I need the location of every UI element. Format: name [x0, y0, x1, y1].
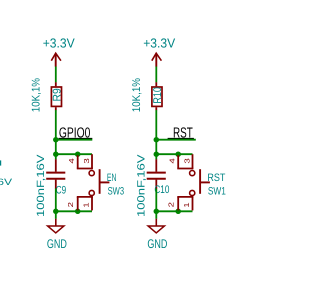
junction left column SW3 top wire: [53, 151, 59, 157]
svg-text:EN: EN: [107, 172, 117, 184]
svg-text:SW3: SW3: [108, 185, 125, 197]
svg-text:+3.3V: +3.3V: [143, 35, 175, 50]
switch SW3 body: [77, 154, 110, 210]
wire RST label: [156, 139, 196, 141]
label GPIO0: [59, 125, 93, 141]
svg-text:SW1: SW1: [208, 186, 226, 198]
switch SW1 body: [177, 154, 210, 210]
label RST: [168, 125, 194, 141]
svg-text:RST: RST: [207, 172, 225, 184]
ground right: [148, 219, 164, 233]
junction SW1 pin 4: [175, 151, 181, 157]
wire SW1 bottom: [156, 210, 192, 212]
svg-text:10K,1%: 10K,1%: [131, 78, 143, 112]
svg-text:GND: GND: [47, 237, 67, 251]
svg-text:100nF,16V: 100nF,16V: [136, 155, 148, 218]
junction SW1 pin 2: [175, 209, 181, 215]
power +3.3V left arrow: [51, 53, 61, 66]
wire +3.3V to R9: [55, 67, 57, 83]
junction left column bottom: [53, 209, 59, 215]
ground left: [48, 219, 64, 233]
wire C9 to GND: [55, 189, 57, 219]
wire R9 down main left column: [55, 110, 57, 159]
capacitor C9: [46, 159, 65, 188]
svg-text:GND: GND: [147, 237, 167, 251]
junction right column bottom: [154, 209, 160, 215]
capacitor C10: [147, 159, 166, 188]
wire GPIO0 label: [56, 139, 93, 141]
svg-text:C9: C9: [56, 184, 66, 196]
clipped text fragment left edge: [0, 160, 1, 165]
svg-text:100nF,16V: 100nF,16V: [0, 177, 13, 187]
junction SW3 pin 4: [75, 151, 81, 157]
resistor R10: [152, 82, 162, 110]
svg-text:R9: R9: [52, 88, 64, 101]
resistor R9: [51, 82, 61, 110]
svg-text:2: 2: [66, 202, 75, 207]
wire to SW1 top: [156, 153, 192, 155]
svg-text:2: 2: [167, 202, 176, 207]
junction right column SW1 top wire: [154, 151, 160, 157]
junction RST: [154, 137, 160, 143]
svg-text:10K,1%: 10K,1%: [31, 78, 43, 112]
wire C10 to GND: [155, 189, 157, 219]
svg-text:+3.3V: +3.3V: [43, 35, 75, 50]
junction GPIO0: [53, 137, 59, 143]
wire to SW3 top: [56, 153, 92, 155]
svg-text:3: 3: [183, 158, 192, 163]
svg-text:4: 4: [168, 158, 177, 163]
power +3.3V right arrow: [152, 53, 162, 66]
svg-text:R10: R10: [152, 87, 164, 104]
svg-text:1: 1: [182, 202, 191, 207]
svg-text:4: 4: [67, 158, 76, 163]
junction SW3 pin 2: [75, 209, 81, 215]
svg-text:1: 1: [81, 202, 90, 207]
svg-text:100nF,16V: 100nF,16V: [35, 155, 47, 218]
wire R10 down main right column: [155, 110, 157, 159]
svg-text:3: 3: [82, 158, 91, 163]
wire +3.3V to R10: [155, 67, 157, 83]
wire SW3 bottom: [56, 210, 92, 212]
